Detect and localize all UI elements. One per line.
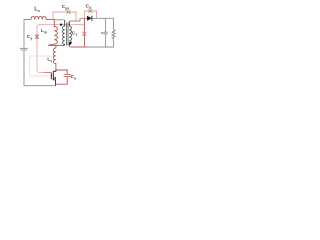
wire left rail top corner to bottom <box>24 20 56 86</box>
wire <box>55 19 64 21</box>
svg-text:d: d <box>89 6 91 10</box>
svg-text:s: s <box>76 33 78 37</box>
svg-text:ps: ps <box>65 6 69 10</box>
inductor L_m (magnetizing, red vertical coil) <box>48 20 57 45</box>
capacitor C_o (output) <box>105 18 107 47</box>
transistor Q (MOSFET) <box>53 70 56 71</box>
gate wire from C_y path <box>50 71 52 74</box>
svg-text:y: y <box>30 36 32 40</box>
svg-text:o: o <box>74 77 76 81</box>
svg-text:o: o <box>38 9 40 13</box>
capacitor C_ps (pi bypass with x symbol) <box>53 12 76 21</box>
wire <box>59 44 65 46</box>
capacitor C_s (red line with asterisk across secondary) <box>83 18 85 47</box>
svg-text:m: m <box>44 30 47 34</box>
wire drain junction to cap <box>56 70 67 74</box>
wire bottom of primary cell <box>48 44 59 46</box>
capacitor C_d (pi bypass over diode with x symbol) <box>84 11 96 18</box>
capacitor C_y (red path from secondary node with asterisk) <box>37 25 85 48</box>
labels group (grayscale AA layer) <box>27 4 92 81</box>
node dot primary <box>60 23 62 25</box>
wire red part of bottom rail <box>70 46 86 48</box>
wire secondary rails <box>86 18 114 47</box>
inductor L_f <box>31 16 46 19</box>
capacitor C_q (across MOSFET, red) <box>64 74 71 76</box>
capacitor input (plates on left rail) <box>20 48 28 50</box>
diode D <box>87 16 92 21</box>
transformer core <box>67 23 69 46</box>
box (pale pink rounded rectangle) <box>30 56 55 76</box>
svg-text:s: s <box>50 59 52 63</box>
resistor R_L (load zigzag) <box>112 30 115 39</box>
transformer primary winding <box>63 20 65 46</box>
transformer secondary winding <box>69 21 71 47</box>
wire top rail to transformer <box>46 19 55 21</box>
inductor L_lk (leakage, red vertical coil) <box>53 45 56 70</box>
node dot secondary <box>69 42 71 44</box>
wire secondary top <box>69 18 87 21</box>
